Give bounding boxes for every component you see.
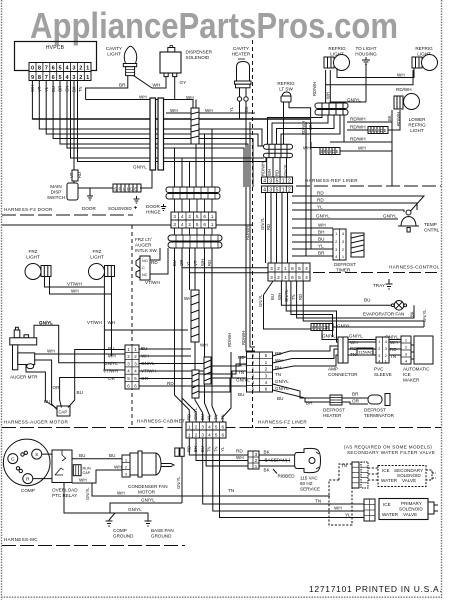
svg-text:GN/YL: GN/YL (133, 165, 147, 170)
svg-text:GN/YL: GN/YL (193, 407, 198, 420)
svg-text:GN/YL: GN/YL (85, 487, 90, 500)
to light housing ground (355, 46, 377, 102)
door ground (82, 188, 96, 211)
page border right (441, 0, 443, 598)
refrig light right L3 (412, 46, 438, 71)
wire YL long to primary (220, 438, 365, 518)
wire cavity heater BK lead (245, 88, 247, 162)
wire dispenser WH down (86, 100, 196, 109)
wire cavity light WH diagonal to dispenser (134, 76, 167, 88)
wire switch to splice (78, 187, 113, 189)
run cap (73, 465, 91, 476)
svg-text:HINGE: HINGE (146, 210, 161, 215)
svg-text:MAIN: MAIN (50, 184, 61, 189)
svg-text:HARNESS-F2 DOOR: HARNESS-F2 DOOR (4, 207, 53, 212)
svg-text:HEATER: HEATER (232, 52, 251, 57)
wires bars to grid (175, 199, 213, 212)
connector stack upper right (liner bars) (315, 103, 348, 115)
svg-text:GN/YL: GN/YL (422, 309, 427, 322)
svg-text:5: 5 (196, 214, 199, 219)
wire WH top bus (337, 68, 414, 78)
intlk switch SW3 (136, 256, 158, 280)
svg-text:BR: BR (119, 83, 126, 88)
svg-text:WH: WH (47, 349, 55, 354)
splice fz liner S6 (311, 324, 351, 331)
wire GN/YL relay down (64, 483, 148, 519)
svg-text:RD/WH: RD/WH (350, 125, 366, 130)
frz light right L6 (89, 249, 115, 280)
svg-text:MOTOR: MOTOR (138, 490, 156, 495)
svg-text:5: 5 (298, 275, 301, 281)
svg-text:AMP: AMP (328, 367, 338, 372)
svg-text:OR: OR (53, 385, 61, 390)
svg-text:GN/YL: GN/YL (104, 361, 118, 366)
svg-text:WH: WH (397, 73, 405, 78)
svg-text:WH: WH (114, 465, 122, 470)
svg-text:BR: BR (318, 251, 325, 256)
svg-text:TRAY: TRAY (373, 283, 385, 288)
wire lt sw vertical A (283, 102, 285, 144)
svg-text:6: 6 (291, 266, 294, 272)
splice S4 (320, 148, 340, 155)
svg-text:WH: WH (358, 146, 366, 151)
wire auger OR down-right (26, 365, 58, 410)
svg-text:WH: WH (79, 478, 87, 483)
svg-text:GN/YL: GN/YL (258, 294, 263, 307)
svg-text:VALVE: VALVE (403, 512, 417, 517)
wire BU to timer (292, 241, 333, 243)
svg-text:RIBBED: RIBBED (278, 474, 296, 479)
dashed separator mc (2, 545, 185, 547)
svg-text:AUGER MTR: AUGER MTR (10, 375, 38, 380)
svg-text:GROUND: GROUND (151, 534, 172, 539)
svg-text:AUTOMATIC: AUTOMATIC (403, 367, 430, 372)
svg-text:3: 3 (72, 75, 75, 81)
svg-text:GN/YL: GN/YL (39, 321, 53, 326)
svg-text:HEATER: HEATER (323, 413, 342, 418)
svg-text:SOLENOID: SOLENOID (399, 507, 423, 512)
wire pin7 vertical (46, 81, 263, 147)
svg-text:BU: BU (200, 414, 205, 420)
svg-text:VALVE: VALVE (402, 478, 416, 483)
svg-text:GN/YL: GN/YL (236, 378, 250, 383)
lower refrig light L4 (387, 94, 426, 134)
wire gn/yl splice bus (333, 326, 424, 328)
svg-text:BU: BU (277, 396, 283, 401)
compressor COMP (3, 439, 50, 493)
svg-text:6: 6 (52, 75, 55, 81)
svg-text:(AS REQUIRED ON SOME MODELS): (AS REQUIRED ON SOME MODELS) (344, 445, 432, 450)
wire WH relay to condenser (72, 470, 122, 483)
svg-text:6: 6 (203, 214, 206, 219)
svg-text:SOLENOID: SOLENOID (108, 206, 132, 211)
svg-text:BR: BR (352, 392, 359, 397)
svg-text:TEMP: TEMP (424, 222, 437, 227)
svg-text:WATER: WATER (382, 512, 399, 517)
svg-text:YL: YL (345, 513, 351, 518)
extra verticals to control area (305, 122, 307, 256)
svg-text:4: 4 (263, 179, 266, 185)
svg-text:WH: WH (238, 363, 246, 368)
svg-text:TN: TN (315, 499, 321, 504)
svg-text:4: 4 (181, 222, 184, 227)
control connector grids 3 2 1 6 5 4 (268, 263, 310, 281)
comp ground (106, 513, 135, 539)
wire WH lower (92, 483, 330, 496)
svg-text:AppliancePartsPros.com: AppliancePartsPros.com (30, 5, 398, 46)
tray ground (373, 279, 393, 289)
svg-text:OR: OR (352, 399, 360, 404)
svg-text:GN/YL: GN/YL (141, 498, 155, 503)
svg-text:HARNESS-FZ LINER: HARNESS-FZ LINER (258, 420, 307, 425)
svg-text:HOUSING: HOUSING (355, 52, 377, 57)
wire gn/yl hinge-down (140, 170, 152, 188)
vertical splice S1 (191, 108, 199, 144)
svg-text:BK: BK (387, 115, 392, 121)
svg-text:RD: RD (151, 260, 158, 265)
vertical splice long S5 (184, 290, 199, 342)
svg-text:6: 6 (291, 275, 294, 281)
svg-text:BH: BH (306, 401, 312, 406)
svg-text:1: 1 (86, 66, 89, 72)
wires ref-liner connector down (265, 193, 267, 264)
svg-text:TN: TN (228, 488, 234, 493)
labels right of fz liner connector (275, 351, 289, 401)
svg-text:C: C (142, 266, 145, 270)
svg-text:RD: RD (266, 224, 271, 230)
wire dispenser GY (174, 77, 176, 100)
svg-text:REFRIG: REFRIG (408, 123, 426, 128)
svg-text:OVERLOAD: OVERLOAD (52, 488, 78, 493)
svg-text:COMP: COMP (21, 488, 35, 493)
svg-text:5: 5 (59, 75, 62, 81)
svg-text:CAVITY: CAVITY (106, 46, 122, 51)
wire RD/WH top bus (326, 70, 413, 103)
temp cntrl RT1 (398, 210, 440, 233)
condenser fan motor M3 (122, 451, 174, 495)
dashed separator auger (2, 427, 132, 429)
svg-text:RD: RD (275, 170, 280, 176)
wire RD bus1 right (292, 196, 424, 211)
svg-text:SECONDARY WATER FILTER VALVE: SECONDARY WATER FILTER VALVE (347, 450, 435, 455)
svg-text:DOOR: DOOR (146, 204, 160, 209)
svg-text:DEFROST: DEFROST (364, 408, 386, 413)
wire auger WH right (35, 353, 125, 355)
wire auger BU (35, 360, 60, 412)
svg-text:YL: YL (318, 244, 324, 249)
wire TN long to primary (203, 438, 364, 504)
svg-text:1: 1 (282, 179, 285, 185)
svg-text:RD/WH: RD/WH (350, 137, 366, 142)
svg-text:WH: WH (318, 223, 326, 228)
svg-text:5: 5 (215, 424, 218, 429)
svg-text:VT/WH: VT/WH (67, 282, 82, 287)
svg-text:CNTRL: CNTRL (424, 228, 440, 233)
svg-text:LIGHT: LIGHT (107, 52, 121, 57)
svg-text:1: 1 (211, 222, 214, 227)
svg-text:TN: TN (78, 86, 83, 92)
svg-text:REFRIG: REFRIG (277, 81, 295, 86)
svg-text:TN: TN (238, 370, 244, 375)
svg-text:3: 3 (173, 222, 176, 227)
svg-text:3: 3 (201, 424, 204, 429)
svg-text:8: 8 (38, 66, 41, 72)
svg-text:BK: BK (244, 106, 249, 112)
svg-text:3: 3 (201, 432, 204, 437)
svg-text:HARNESS-CONTROL: HARNESS-CONTROL (389, 265, 440, 270)
wire bus horizontals mid (32, 118, 310, 120)
svg-text:6: 6 (222, 424, 225, 429)
svg-text:MAKER: MAKER (403, 378, 420, 383)
defrost heater R2 (323, 395, 345, 418)
frz lt/auger intlk sw connector bars (135, 235, 222, 253)
pvc sleeve J2 (374, 337, 398, 377)
svg-text:TN: TN (291, 294, 296, 300)
wire BR to timer (292, 255, 333, 257)
svg-text:6: 6 (222, 432, 225, 437)
cabinet connector labels (103, 346, 156, 381)
svg-text:HARNESS-CABINET: HARNESS-CABINET (137, 419, 185, 424)
svg-text:3: 3 (270, 275, 273, 281)
svg-text:TN: TN (213, 414, 218, 420)
svg-text:WH: WH (236, 455, 244, 460)
svg-text:WH: WH (200, 343, 208, 348)
svg-text:DISP: DISP (51, 190, 62, 195)
dashed separator fz liner (255, 427, 441, 429)
wires amp to pvc to icemaker (348, 342, 414, 359)
svg-text:DEFROST: DEFROST (323, 408, 345, 413)
left liner connector bars (264, 144, 293, 157)
svg-text:VT/WH: VT/WH (103, 369, 118, 374)
svg-text:3: 3 (173, 214, 176, 219)
wire cavity light BR (86, 76, 128, 100)
svg-text:5: 5 (215, 432, 218, 437)
dashed separator control (313, 272, 441, 274)
svg-text:8: 8 (38, 75, 41, 81)
svg-text:HARNESS-REF LINER: HARNESS-REF LINER (305, 178, 358, 183)
door hinge pass-through bars (150, 98, 164, 170)
wire lt sw route B (289, 102, 320, 148)
svg-text:ICE: ICE (383, 502, 391, 507)
svg-text:BU: BU (109, 453, 115, 458)
svg-text:RD: RD (77, 172, 82, 178)
svg-text:BU: BU (364, 298, 370, 303)
svg-text:6: 6 (52, 66, 55, 72)
svg-text:3: 3 (270, 266, 273, 272)
wire BR OR to terminator (342, 398, 368, 404)
wire pin2 vertical to main disp switch (73, 81, 75, 184)
svg-text:RD: RD (298, 294, 303, 300)
wire comp S to relay (33, 454, 52, 479)
splice S2 (113, 184, 141, 192)
svg-text:LIGHT: LIGHT (26, 255, 40, 260)
wire auger GN/YL up (34, 325, 125, 362)
wire BU relay to condenser (72, 458, 122, 460)
wire pin4 vertical (67, 81, 244, 188)
svg-text:LIGHT: LIGHT (410, 128, 424, 133)
wire pin8 vertical (39, 81, 262, 147)
wire GN/YL control to splice (264, 281, 312, 329)
svg-text:RD: RD (187, 414, 192, 420)
fz liner connector (2col) (247, 352, 273, 392)
svg-text:SPLICE: SPLICE (369, 128, 388, 133)
svg-text:GN/YL: GN/YL (349, 334, 363, 339)
main disp switch SW1 (47, 170, 78, 200)
svg-text:2: 2 (195, 432, 198, 437)
svg-text:YL: YL (229, 106, 234, 112)
svg-text:BU: BU (270, 294, 275, 300)
svg-text:2: 2 (79, 66, 82, 72)
svg-text:LT SW: LT SW (279, 87, 293, 92)
svg-text:BU: BU (44, 399, 50, 404)
wires bars to connector (266, 158, 268, 177)
HVPCB pin row lower (pins 9 8 7 6 5 4 3 2 1) (29, 72, 91, 81)
wire VT label (69, 172, 82, 178)
svg-text:RD/WH: RD/WH (227, 333, 232, 347)
svg-text:GN/YL: GN/YL (337, 324, 351, 329)
svg-text:LIGHT: LIGHT (90, 255, 104, 260)
svg-text:OR: OR (108, 376, 116, 381)
svg-text:WH: WH (186, 95, 194, 100)
svg-text:DOOR: DOOR (82, 206, 96, 211)
svg-text:2: 2 (277, 266, 280, 272)
svg-text:SPLICE: SPLICE (114, 187, 139, 192)
refrig lt sw SW2 (277, 81, 295, 102)
svg-text:TN: TN (275, 372, 281, 377)
svg-text:WH: WH (334, 506, 342, 511)
svg-text:1: 1 (86, 75, 89, 81)
svg-text:GN/YL: GN/YL (260, 217, 265, 230)
wire to defrost heater left (273, 384, 331, 402)
wires grid to intlk bars (175, 228, 213, 235)
svg-text:5: 5 (196, 222, 199, 227)
wire pin5 vertical (60, 81, 248, 188)
svg-text:4: 4 (305, 275, 308, 281)
primary solenoid valve box (379, 499, 438, 520)
wire pin6 vertical (53, 81, 253, 188)
svg-text:BASE PAN: BASE PAN (151, 528, 174, 533)
splice S8 (192, 343, 208, 399)
svg-text:7: 7 (45, 75, 48, 81)
svg-text:2: 2 (277, 275, 280, 281)
wire WH long to primary (213, 438, 364, 511)
wires buses to lower bars (175, 129, 213, 187)
svg-text:5: 5 (59, 66, 62, 72)
automatic ice maker A1 (401, 336, 433, 383)
svg-text:S: S (35, 452, 38, 457)
wires middle to control connector (182, 268, 268, 273)
wire RD/WH bus3 (330, 141, 392, 143)
svg-text:WH: WH (153, 83, 161, 88)
secondary solenoid valve (dashed) (378, 466, 436, 487)
wire RD/WH bus1 (347, 121, 392, 123)
cavity heater R1 (232, 46, 251, 101)
amp connector J1 (328, 337, 358, 377)
svg-text:GROUND: GROUND (113, 534, 134, 539)
wire BK to basepan (189, 438, 248, 466)
svg-text:TN: TN (207, 446, 212, 452)
svg-text:PVC: PVC (374, 367, 384, 372)
svg-text:TIMER: TIMER (336, 268, 351, 273)
svg-text:ICE: ICE (382, 468, 390, 473)
wire YL bus (292, 210, 404, 212)
wire VT/WH WH down (103, 287, 105, 330)
svg-text:TERMINATOR: TERMINATOR (364, 413, 395, 418)
svg-text:1: 1 (284, 266, 287, 272)
overload ptc relay (52, 450, 78, 498)
wires middle to fz connector (186, 357, 247, 392)
svg-text:115VAC: 115VAC (359, 350, 373, 355)
svg-text:SWITCH: SWITCH (47, 195, 65, 200)
rotated labels below bottom connector (187, 446, 226, 452)
svg-text:YL: YL (207, 414, 212, 420)
wire GN/YL bus (292, 218, 398, 220)
svg-text:WH: WH (267, 169, 272, 176)
svg-text:CAVITY: CAVITY (233, 46, 249, 51)
dashed separator ref liner (296, 185, 441, 187)
section divider vertical fz (252, 40, 254, 427)
wires cabinet connector right (139, 349, 204, 386)
svg-text:RD/WH: RD/WH (396, 112, 401, 126)
wire BU to evap fan (281, 281, 391, 305)
wire GN/YL down left of connector (181, 398, 183, 503)
svg-text:BU: BU (318, 237, 324, 242)
svg-text:COMP: COMP (113, 528, 127, 533)
svg-text:VT/WH: VT/WH (145, 280, 160, 285)
svg-text:RD/WH: RD/WH (396, 87, 412, 92)
svg-text:BU: BU (238, 392, 244, 397)
cabinet connector J3 (125, 345, 139, 389)
wire GN/YL condenser down (110, 503, 182, 513)
svg-text:9: 9 (31, 75, 34, 81)
svg-text:YL: YL (186, 260, 191, 266)
svg-text:VT: VT (69, 172, 74, 178)
svg-text:FRZ LT/: FRZ LT/ (135, 237, 152, 242)
svg-text:SOLENOID: SOLENOID (186, 55, 210, 60)
wire WH to basepan (196, 438, 248, 461)
svg-text:5: 5 (298, 266, 301, 272)
svg-text:RD: RD (236, 449, 243, 454)
svg-text:DEFROST: DEFROST (334, 262, 356, 267)
dispenser solenoid K1 (160, 46, 213, 77)
svg-text:TO LIGHT: TO LIGHT (355, 46, 376, 51)
svg-text:BU: BU (108, 346, 114, 351)
svg-text:TN: TN (213, 446, 218, 452)
rotated wire labels RD/WH col (301, 82, 331, 135)
svg-text:VT/WH: VT/WH (87, 320, 102, 325)
inline connector to secondary valve (352, 462, 368, 488)
svg-text:WH: WH (108, 354, 116, 359)
svg-text:12717101 PRINTED IN U.S.A.: 12717101 PRINTED IN U.S.A. (309, 584, 442, 594)
svg-text:REFRIG: REFRIG (415, 46, 433, 51)
115VAC box (357, 348, 373, 355)
svg-text:WH: WH (139, 95, 147, 100)
svg-text:RD/WH: RD/WH (245, 226, 250, 240)
svg-text:CAP: CAP (83, 471, 91, 475)
svg-text:5: 5 (276, 179, 279, 185)
svg-text:CONDENSER FAN: CONDENSER FAN (128, 484, 168, 489)
wire BH to timer (292, 234, 333, 236)
svg-text:0: 0 (31, 66, 34, 72)
wire intlk sw connections (150, 248, 168, 274)
hinge lower connector bars (166, 187, 220, 199)
svg-text:BU: BU (77, 390, 83, 395)
dashed wires to secondary valve (329, 464, 378, 525)
wire WH after splice (340, 150, 392, 152)
dashed separator cabinet (132, 427, 256, 429)
wire pin3 vertical (71, 81, 264, 159)
refrig light left L2 (324, 46, 350, 71)
